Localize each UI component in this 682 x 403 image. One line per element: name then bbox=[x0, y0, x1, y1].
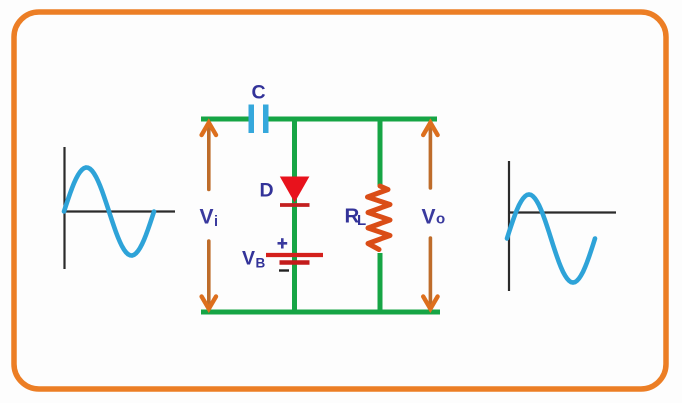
wire: middle branch bbox=[292, 119, 297, 312]
wire: resistor branch top bbox=[378, 119, 383, 186]
svg-text:o: o bbox=[436, 211, 445, 228]
svg-text:C: C bbox=[252, 82, 266, 104]
input waveform sine bbox=[64, 168, 154, 256]
svg-text:B: B bbox=[256, 256, 266, 271]
svg-text:D: D bbox=[260, 180, 274, 202]
arrow Vo up segment bbox=[423, 123, 437, 188]
battery minus sign bbox=[279, 269, 289, 271]
wire: top right segment bbox=[269, 117, 438, 122]
svg-text:L: L bbox=[357, 212, 366, 229]
input waveform axes bbox=[63, 147, 175, 269]
svg-text:i: i bbox=[214, 214, 218, 230]
svg-text:V: V bbox=[200, 206, 214, 229]
output waveform sine bbox=[507, 195, 595, 283]
battery VB bbox=[266, 255, 323, 263]
wire: bottom bbox=[201, 310, 440, 315]
diode D bbox=[280, 177, 310, 206]
arrow Vi up segment bbox=[202, 123, 216, 190]
svg-text:V: V bbox=[422, 206, 436, 229]
output waveform axes bbox=[508, 161, 616, 291]
arrow Vo down segment bbox=[423, 238, 437, 309]
wire: resistor branch bottom bbox=[378, 253, 383, 312]
svg-text:V: V bbox=[242, 248, 255, 270]
capacitor C1 plates bbox=[249, 105, 269, 134]
arrow Vi down segment bbox=[202, 241, 216, 309]
wire: top left segment bbox=[201, 117, 249, 122]
battery plus sign bbox=[278, 238, 288, 248]
resistor RL zigzag bbox=[368, 186, 391, 250]
